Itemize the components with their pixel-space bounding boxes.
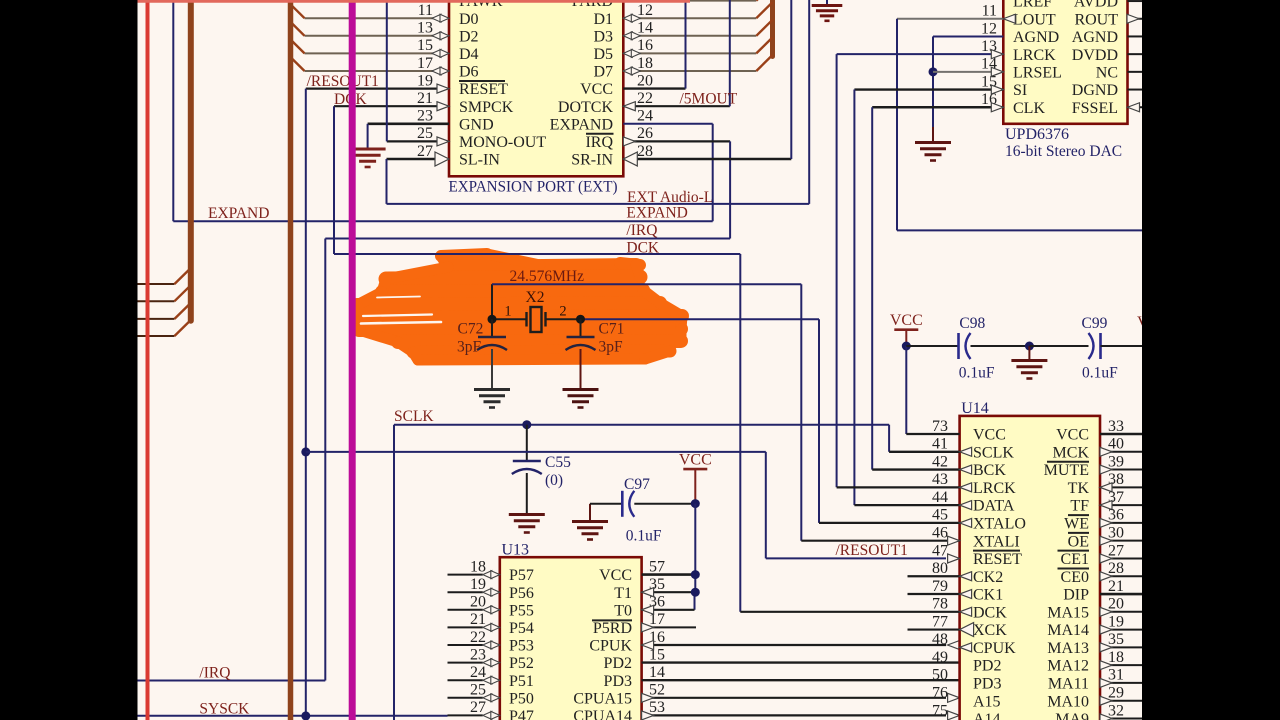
wire: U14 SCLK pin 41 (889, 451, 960, 453)
svg-text:1: 1 (504, 304, 511, 320)
svg-text:DGND: DGND (1072, 82, 1118, 99)
svg-text:DIP: DIP (1063, 587, 1089, 604)
svg-text:17: 17 (417, 55, 433, 72)
svg-text:C71: C71 (599, 321, 625, 338)
svg-text:CE0: CE0 (1061, 569, 1089, 586)
svg-text:44: 44 (932, 489, 948, 506)
svg-text:42: 42 (932, 453, 948, 470)
bus B3 right of EXT (770, 0, 775, 57)
svg-text:23: 23 (470, 646, 486, 663)
IC U13 body (500, 557, 642, 720)
svg-text:PD3: PD3 (973, 676, 1001, 693)
svg-text:PD2: PD2 (973, 658, 1001, 675)
svg-text:C55: C55 (545, 454, 571, 471)
svg-text:33: 33 (1108, 418, 1124, 435)
svg-text:21: 21 (417, 90, 433, 107)
node: AGND/LRSEL junction (929, 67, 938, 76)
svg-text:/RESOUT1: /RESOUT1 (836, 542, 908, 559)
node: VCC/C98 junction (902, 342, 911, 351)
svg-text:SL-IN: SL-IN (459, 152, 500, 169)
bus B1 left vertical (188, 0, 194, 321)
svg-text:DCK: DCK (626, 239, 660, 256)
svg-text:16-bit Stereo DAC: 16-bit Stereo DAC (1005, 143, 1122, 160)
svg-text:14: 14 (649, 664, 665, 681)
svg-text:D4: D4 (459, 46, 479, 63)
svg-text:MUTE: MUTE (1044, 462, 1089, 479)
svg-text:73: 73 (932, 418, 948, 435)
wire: SR-IN pin 28 up (623, 158, 791, 161)
wire: CPUA15/A15 net (642, 697, 946, 699)
svg-text:LOUT: LOUT (1013, 11, 1056, 28)
svg-text:P5RD: P5RD (593, 620, 632, 637)
wire: XTALO net crystal row (492, 318, 527, 320)
svg-text:DCK: DCK (973, 604, 1007, 621)
svg-text:SR-IN: SR-IN (571, 152, 613, 169)
svg-text:CPUA15: CPUA15 (573, 690, 632, 707)
svg-text:WE: WE (1064, 516, 1089, 533)
svg-text:MA13: MA13 (1047, 640, 1089, 657)
wire: /RESOUT1 long run (306, 451, 766, 453)
svg-text:P50: P50 (509, 690, 534, 707)
svg-text:3pF: 3pF (457, 339, 482, 356)
svg-text:79: 79 (932, 578, 948, 595)
svg-text:P53: P53 (509, 638, 534, 655)
wire: /5MOUT to DOTCK pin 22 (623, 105, 730, 107)
wire: SYSCK bottom (137, 715, 448, 717)
svg-text:U13: U13 (502, 542, 530, 559)
annotation: orange highlighter scribble (441, 254, 487, 256)
wire: U13 T0 pin 36 (642, 609, 695, 611)
svg-text:CK2: CK2 (973, 569, 1003, 586)
svg-text:18: 18 (470, 558, 486, 575)
svg-text:X2: X2 (526, 289, 545, 306)
wire: DAC AGND (933, 35, 1003, 37)
svg-text:/IRQ: /IRQ (199, 665, 230, 682)
svg-text:XTALO: XTALO (973, 516, 1026, 533)
svg-text:29: 29 (1108, 685, 1124, 702)
svg-text:AGND: AGND (1013, 29, 1059, 46)
wire: PD3 net (642, 679, 960, 681)
svg-text:22: 22 (470, 629, 486, 646)
svg-text:MCK: MCK (1053, 444, 1090, 461)
svg-text:PD3: PD3 (604, 673, 632, 690)
svg-text:RESET: RESET (973, 551, 1022, 568)
IC U? UPD6376 body (1003, 0, 1127, 124)
svg-text:D3: D3 (593, 28, 613, 45)
wire: LRSEL stub (933, 71, 1003, 73)
svg-text:CPUA14: CPUA14 (573, 708, 632, 720)
svg-text:35: 35 (1108, 631, 1124, 648)
svg-text:3pF: 3pF (599, 339, 624, 356)
svg-text:36: 36 (1108, 507, 1124, 524)
svg-text:P51: P51 (509, 673, 534, 690)
wire: VCC down to U14 pin 73 (905, 346, 907, 434)
svg-text:CE1: CE1 (1061, 551, 1089, 568)
svg-text:MA11: MA11 (1048, 676, 1089, 693)
wire: DCK horizontal run (334, 253, 740, 255)
wire: U14 LRCK pin 43 (837, 486, 960, 488)
wire: XTALI net top (491, 284, 493, 319)
svg-text:NC: NC (1096, 64, 1118, 81)
svg-text:D5: D5 (593, 46, 613, 63)
svg-text:19: 19 (417, 72, 433, 89)
svg-text:EXPAND: EXPAND (208, 205, 269, 222)
capacitor C98 0.1uF (906, 345, 958, 347)
letterbox left (0, 0, 138, 720)
wire: ROUT arrow (1127, 14, 1139, 23)
svg-text:12: 12 (637, 2, 653, 19)
wire: /RESOUT1 net from RESET pin 19 (306, 87, 437, 89)
wire: SL-IN pin 27 / EXT Audio-L (387, 158, 436, 161)
svg-text:20: 20 (470, 594, 486, 611)
svg-text:P55: P55 (509, 602, 534, 619)
svg-text:P56: P56 (509, 585, 534, 602)
svg-text:C98: C98 (959, 315, 985, 332)
svg-text:LRCK: LRCK (973, 480, 1016, 497)
svg-text:30: 30 (1108, 524, 1124, 541)
capacitor C71 3pF (580, 319, 582, 337)
svg-text:IRQ: IRQ (585, 134, 613, 151)
svg-text:ROUT: ROUT (1074, 11, 1118, 28)
svg-text:31: 31 (1108, 667, 1124, 684)
svg-text:21: 21 (470, 611, 486, 628)
svg-text:(0): (0) (545, 472, 563, 489)
wire: MONO-OUT pin 25 (387, 140, 437, 142)
ground: top middle (826, 0, 828, 5)
svg-text:VCC: VCC (1056, 427, 1089, 444)
svg-text:GND: GND (459, 116, 494, 133)
node: C98/C99 ground junction (1025, 342, 1034, 351)
svg-text:24: 24 (470, 664, 486, 681)
wire: top highlighted red net (137, 0, 690, 3)
wire: CPUK net U13-U14 (642, 644, 946, 646)
svg-text:11: 11 (982, 3, 997, 20)
capacitor C99 0.1uF (1029, 345, 1088, 347)
ground: EXT GND pin 23 (368, 123, 449, 126)
svg-text:52: 52 (649, 682, 665, 699)
svg-text:15: 15 (417, 37, 433, 54)
svg-text:47: 47 (932, 542, 948, 559)
svg-text:43: 43 (932, 471, 948, 488)
wire: U14 XTALI pin 46 (801, 540, 959, 542)
svg-text:DATA: DATA (973, 498, 1015, 515)
svg-text:24.576MHz: 24.576MHz (510, 268, 585, 285)
wire: LOUT audio left out (897, 18, 1003, 20)
wire: CPUA14/A14 net (642, 714, 946, 716)
svg-text:27: 27 (470, 699, 486, 716)
svg-text:18: 18 (1108, 649, 1124, 666)
svg-text:D6: D6 (459, 64, 479, 81)
svg-text:78: 78 (932, 596, 948, 613)
bus B1 entries (137, 283, 175, 285)
svg-text:VCC: VCC (890, 312, 923, 329)
svg-text:LRSEL: LRSEL (1013, 64, 1062, 81)
svg-text:BCK: BCK (973, 462, 1006, 479)
svg-text:50: 50 (932, 667, 948, 684)
wire: PD2 net (642, 661, 960, 663)
svg-text:MA14: MA14 (1047, 622, 1089, 639)
svg-text:/RESOUT1: /RESOUT1 (307, 73, 379, 90)
svg-text:19: 19 (470, 576, 486, 593)
svg-text:24: 24 (637, 108, 653, 125)
svg-text:DOTCK: DOTCK (558, 99, 614, 116)
svg-text:25: 25 (417, 125, 433, 142)
svg-text:CLK: CLK (1013, 100, 1045, 117)
wire: U14 RESET pin 47 (948, 554, 960, 563)
svg-text:LRCK: LRCK (1013, 47, 1056, 64)
wire: U14 CPUK arrow (960, 643, 972, 652)
svg-text:25: 25 (470, 682, 486, 699)
svg-text:OE: OE (1068, 533, 1089, 550)
svg-text:/IRQ: /IRQ (626, 222, 657, 239)
svg-text:45: 45 (932, 507, 948, 524)
wire: long magenta vertical net (349, 0, 356, 720)
svg-text:16: 16 (637, 37, 653, 54)
ground: DAC AGND (932, 127, 934, 141)
wire: U13 T1 pin 35 (642, 591, 696, 593)
svg-text:FSSEL: FSSEL (1072, 100, 1118, 117)
wire: EXT Audio-L up to top (808, 0, 810, 204)
svg-text:EXPAND: EXPAND (550, 116, 613, 133)
svg-text:19: 19 (1108, 613, 1124, 630)
node: VCC/C97 junction (691, 499, 700, 508)
svg-text:P52: P52 (509, 655, 534, 672)
svg-text:A15: A15 (973, 693, 1001, 710)
wire: VCC down to U13 (694, 504, 696, 593)
svg-text:VCC: VCC (679, 452, 712, 469)
capacitor C55 (0) (526, 425, 528, 461)
svg-text:EXPAND: EXPAND (626, 205, 687, 222)
svg-text:39: 39 (1108, 453, 1124, 470)
capacitor C97 0.1uF (572, 520, 608, 523)
svg-text:D2: D2 (459, 28, 479, 45)
wire: U14 CK1 stub (908, 593, 960, 595)
svg-text:41: 41 (932, 436, 948, 453)
svg-text:46: 46 (932, 524, 948, 541)
svg-text:AGND: AGND (1072, 29, 1118, 46)
EXT right pin wires D1-D7 to bus B3 (623, 0, 756, 2)
svg-text:CPUK: CPUK (589, 638, 632, 655)
svg-text:U14: U14 (961, 400, 989, 417)
svg-text:CPUK: CPUK (973, 640, 1016, 657)
svg-text:26: 26 (637, 125, 653, 142)
svg-text:C72: C72 (458, 321, 484, 338)
svg-text:28: 28 (1108, 560, 1124, 577)
svg-text:2: 2 (559, 304, 566, 320)
svg-text:EXPANSION PORT (EXT): EXPANSION PORT (EXT) (449, 179, 618, 196)
svg-text:A14: A14 (973, 711, 1001, 720)
wire: U13 VCC pin 57 (642, 573, 696, 576)
wire: U14 XTALO pin 45 (819, 522, 960, 524)
letterbox right (1142, 0, 1280, 720)
svg-text:P47: P47 (509, 708, 534, 720)
wire: SI to U14 DATA (854, 88, 1003, 90)
svg-text:TK: TK (1068, 480, 1090, 497)
wire: CLK to U14 BCK (872, 106, 1003, 108)
svg-text:VCC: VCC (599, 567, 632, 584)
svg-text:80: 80 (932, 560, 948, 577)
svg-text:21: 21 (1108, 578, 1124, 595)
svg-text:28: 28 (637, 143, 653, 160)
crystal X2 (531, 307, 542, 332)
wire: EXPAND net left run (172, 1, 174, 221)
svg-text:SCLK: SCLK (973, 444, 1014, 461)
wire: LRCK to U14 (837, 53, 1004, 55)
svg-text:SMPCK: SMPCK (459, 99, 514, 116)
svg-text:77: 77 (932, 613, 948, 630)
svg-text:MA9: MA9 (1055, 711, 1089, 720)
svg-text:PD2: PD2 (604, 655, 632, 672)
svg-text:P57: P57 (509, 567, 534, 584)
node: crystal pin1 junction (488, 315, 497, 324)
svg-text:14: 14 (637, 20, 653, 37)
node: /RESOUT1 junction (301, 447, 310, 456)
wire: VCC pin 20 up (623, 87, 685, 89)
svg-text:VCC: VCC (973, 427, 1006, 444)
svg-text:53: 53 (649, 699, 665, 716)
svg-text:75: 75 (932, 702, 948, 719)
svg-text:32: 32 (1108, 702, 1124, 719)
wire: /IRQ from pin 26 (623, 140, 730, 142)
svg-text:57: 57 (649, 558, 665, 575)
svg-text:TF: TF (1070, 498, 1089, 515)
svg-text:XTALI: XTALI (973, 533, 1020, 550)
svg-text:0.1uF: 0.1uF (1082, 365, 1118, 382)
svg-text:20: 20 (637, 72, 653, 89)
svg-text:49: 49 (932, 649, 948, 666)
svg-text:0.1uF: 0.1uF (959, 365, 995, 382)
svg-text:/5MOUT: /5MOUT (680, 91, 738, 108)
svg-text:P54: P54 (509, 620, 534, 637)
svg-text:MONO-OUT: MONO-OUT (459, 134, 546, 151)
svg-text:0.1uF: 0.1uF (626, 528, 662, 545)
svg-text:48: 48 (932, 631, 948, 648)
IC U14 body (960, 416, 1100, 720)
svg-text:T1: T1 (614, 585, 632, 602)
svg-text:D0: D0 (459, 11, 479, 28)
svg-text:12: 12 (981, 20, 997, 37)
wire: U14 BCK pin 42 (872, 468, 959, 470)
svg-text:VCC: VCC (580, 81, 613, 98)
wire: U13 P5RD stub (642, 626, 696, 628)
node: crystal pin2 junction (576, 315, 585, 324)
svg-text:T0: T0 (614, 602, 632, 619)
svg-text:22: 22 (637, 90, 653, 107)
svg-text:CK1: CK1 (973, 587, 1003, 604)
node: SYSCK junction (301, 711, 310, 720)
EXT left pin wires D0-D6 from bus B2 (305, 0, 438, 2)
svg-text:C97: C97 (624, 476, 650, 493)
wire: U14 DCK pin 78 (740, 611, 959, 613)
ground: between C98 and C99 (1028, 346, 1030, 359)
bus B2 vertical (288, 0, 294, 720)
svg-text:11: 11 (418, 2, 433, 19)
svg-text:UPD6376: UPD6376 (1005, 126, 1069, 143)
svg-text:27: 27 (1108, 542, 1124, 559)
wire: U14 XCK stub (908, 628, 960, 630)
svg-text:DVDD: DVDD (1072, 47, 1118, 64)
wire: long red vertical net (146, 0, 150, 720)
wire: U14 VCC pin 73 (906, 433, 959, 435)
svg-text:SI: SI (1013, 82, 1027, 99)
svg-text:18: 18 (637, 55, 653, 72)
svg-text:D7: D7 (593, 64, 613, 81)
svg-text:40: 40 (1108, 436, 1124, 453)
svg-text:C99: C99 (1082, 315, 1108, 332)
connector J? EXPANSION PORT (EXT) body (449, 0, 623, 176)
svg-text:SCLK: SCLK (394, 408, 434, 425)
svg-text:76: 76 (932, 685, 948, 702)
svg-text:23: 23 (417, 108, 433, 125)
svg-text:MA12: MA12 (1047, 658, 1089, 675)
svg-text:AVDD: AVDD (1074, 0, 1118, 11)
capacitor C72 3pF (491, 319, 493, 337)
wire: DCK net from SMPCK pin 21 (334, 105, 437, 107)
wire: /IRQ bottom-left run (137, 680, 325, 682)
wire: EXPAND from pin 24 (623, 123, 712, 125)
svg-text:MA10: MA10 (1047, 693, 1089, 710)
svg-text:D1: D1 (593, 11, 613, 28)
svg-text:SYSCK: SYSCK (199, 701, 250, 718)
svg-text:MA15: MA15 (1047, 604, 1089, 621)
svg-text:13: 13 (417, 20, 433, 37)
node: SCLK / C55 junction (522, 420, 531, 429)
svg-text:20: 20 (1108, 596, 1124, 613)
svg-text:LREF: LREF (1013, 0, 1052, 11)
svg-text:EXT Audio-L: EXT Audio-L (627, 189, 713, 206)
svg-text:RESET: RESET (459, 81, 508, 98)
svg-text:27: 27 (417, 143, 433, 160)
wire: U14 CK2 stub (908, 575, 960, 577)
svg-text:XCK: XCK (973, 622, 1007, 639)
wire: U14 DATA pin 44 (854, 504, 959, 506)
